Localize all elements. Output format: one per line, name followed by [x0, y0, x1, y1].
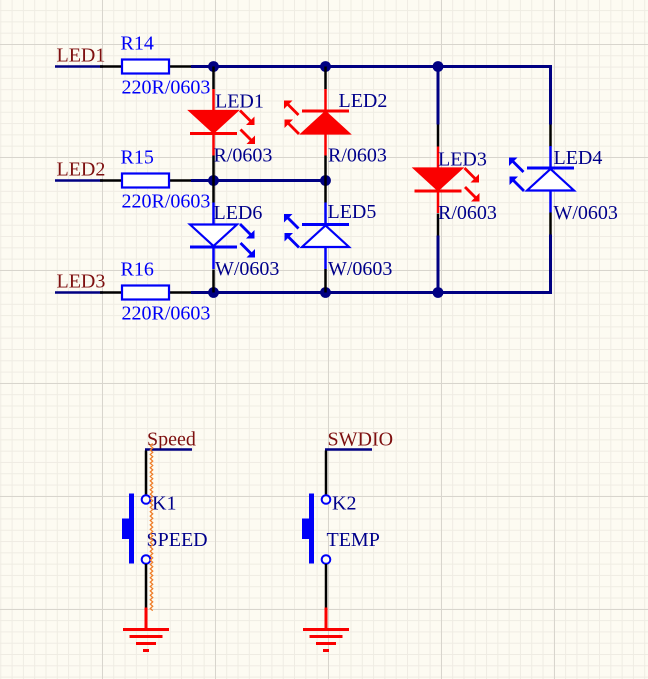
LED D5 (LED5) [284, 203, 349, 270]
label SPEED [147, 529, 208, 551]
resistor R15 [100, 147, 191, 188]
ground (K1) [123, 608, 169, 651]
junction bus3-col2 [320, 287, 331, 298]
junction bus1-col1 [208, 61, 219, 72]
net label Speed [145, 429, 196, 451]
port LED2 [55, 159, 105, 181]
LED D3 (LED3) [415, 147, 480, 214]
LED D4 (LED4) [509, 146, 574, 213]
value label R/0603 (LED2) [328, 145, 387, 167]
svg-text:R15: R15 [121, 147, 154, 169]
svg-text:Speed: Speed [147, 429, 196, 451]
ground (K2) [303, 608, 349, 651]
svg-text:W/0603: W/0603 [554, 202, 618, 224]
wire K2 to ground [325, 564, 328, 608]
LED3 pins [437, 125, 440, 236]
junction bus3-col3 [433, 287, 444, 298]
label LED6 [214, 202, 263, 224]
svg-text:LED2: LED2 [339, 90, 388, 112]
svg-text:R14: R14 [121, 33, 154, 55]
label LED4 [554, 147, 603, 169]
LED5 pins [324, 181, 327, 293]
wire col3 lower [437, 236, 440, 293]
switch K1 [122, 494, 150, 564]
net label SWDIO [325, 429, 393, 451]
svg-text:LED2: LED2 [57, 159, 106, 181]
junction bus1-col2 [320, 61, 331, 72]
value label R14 220R/0603 [122, 77, 211, 99]
wire col4 lower [549, 235, 552, 295]
svg-text:R/0603: R/0603 [214, 145, 273, 167]
svg-text:220R/0603: 220R/0603 [122, 77, 211, 99]
value label R/0603 (LED3) [438, 202, 497, 224]
port LED3 [55, 271, 105, 293]
svg-text:K2: K2 [332, 493, 356, 515]
label K2 [332, 493, 356, 515]
wire net LED1 top bus [191, 65, 551, 68]
svg-text:LED3: LED3 [438, 149, 487, 171]
svg-text:SPEED: SPEED [147, 529, 208, 551]
svg-text:W/0603: W/0603 [215, 258, 279, 280]
value label W/0603 (LED6) [215, 258, 279, 280]
svg-text:220R/0603: 220R/0603 [122, 303, 211, 325]
wire SWDIO to K2 [325, 451, 328, 496]
label LED5 [328, 201, 377, 223]
wire Speed to K1 [145, 451, 148, 496]
resistor R14 [100, 33, 191, 74]
wire K1 to ground [145, 564, 148, 608]
value label R/0603 (LED1) [214, 145, 273, 167]
svg-text:TEMP: TEMP [327, 529, 380, 551]
svg-text:220R/0603: 220R/0603 [122, 191, 211, 213]
LED2 pins [324, 67, 327, 181]
junction bus3-col1 [208, 287, 219, 298]
value label R16 220R/0603 [122, 303, 211, 325]
value label W/0603 (LED4) [554, 202, 618, 224]
label K1 [152, 493, 176, 515]
value label W/0603 (LED5) [328, 258, 392, 280]
label LED2 [339, 90, 388, 112]
svg-text:LED4: LED4 [554, 147, 603, 169]
LED D6 (LED6) [190, 203, 255, 270]
resistor R16 [100, 259, 191, 300]
svg-text:W/0603: W/0603 [328, 258, 392, 280]
junction bus2-col1 [208, 175, 219, 186]
wire col3 upper [437, 67, 440, 125]
label TEMP [327, 529, 380, 551]
wire net LED3 bottom bus [191, 291, 551, 294]
svg-text:LED5: LED5 [328, 201, 377, 223]
value label R15 220R/0603 [122, 191, 211, 213]
svg-text:LED6: LED6 [214, 202, 263, 224]
svg-text:LED3: LED3 [57, 271, 106, 293]
LED6 pins [212, 181, 215, 293]
label LED1 [215, 91, 264, 113]
svg-text:K1: K1 [152, 493, 176, 515]
LED1 pins [212, 67, 215, 181]
LED D1 (LED1) [190, 89, 255, 156]
port LED1 [55, 45, 105, 67]
svg-text:LED1: LED1 [215, 91, 264, 113]
wire net LED2 middle bus [191, 179, 326, 182]
error squiggle on net Speed [150, 444, 152, 611]
LED4 pins [549, 125, 552, 235]
wire col4 upper [549, 65, 552, 125]
label LED3 [438, 149, 487, 171]
switch K2 [302, 494, 330, 564]
junction bus2-col2 [320, 175, 331, 186]
svg-text:SWDIO: SWDIO [328, 429, 394, 451]
svg-text:R/0603: R/0603 [438, 202, 497, 224]
svg-text:R16: R16 [121, 259, 154, 281]
svg-text:R/0603: R/0603 [328, 145, 387, 167]
junction bus1-col3 [433, 61, 444, 72]
svg-text:LED1: LED1 [57, 45, 106, 67]
LED D2 (LED2) [284, 89, 349, 156]
